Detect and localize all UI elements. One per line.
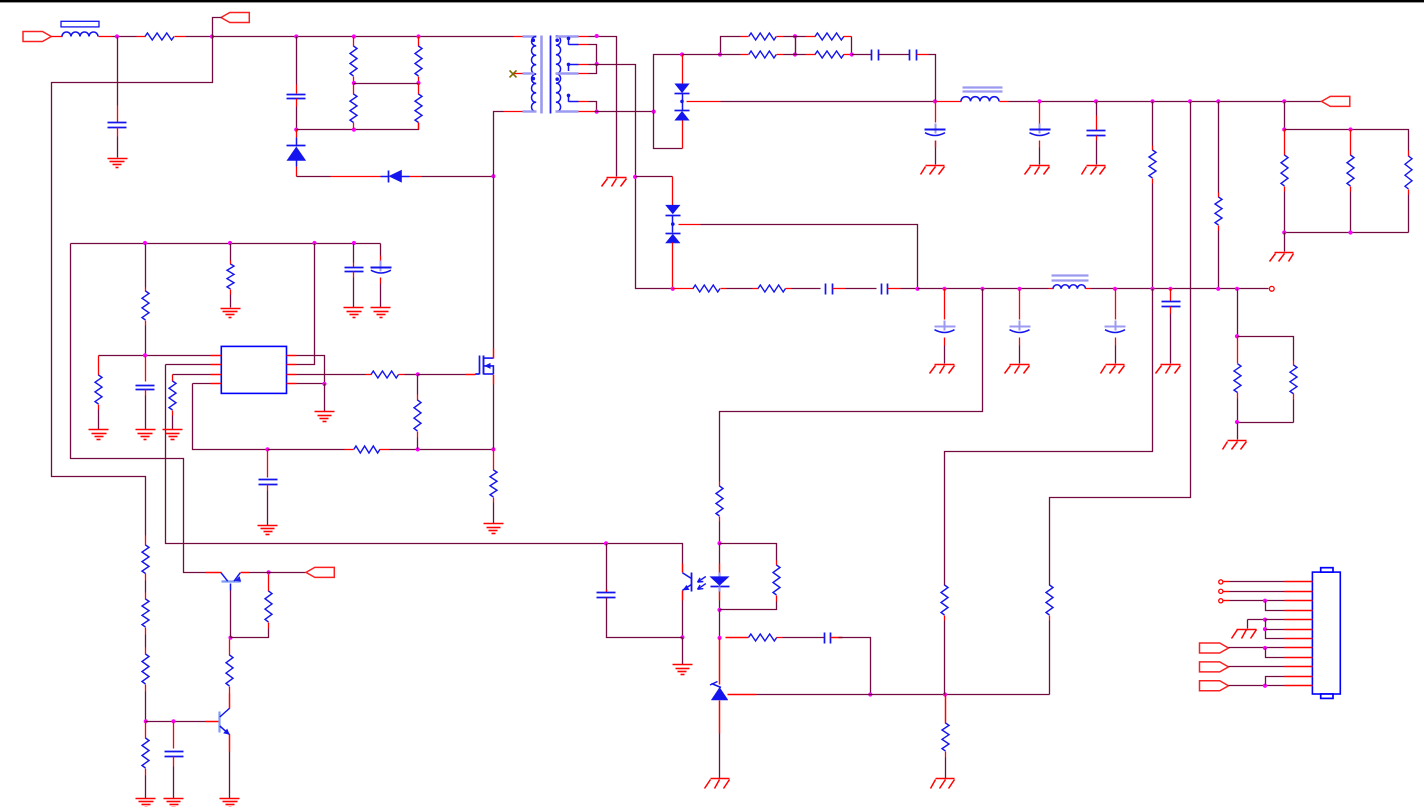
wire bank top bus xyxy=(1285,130,1409,151)
resistor R24 (gate) xyxy=(366,374,372,376)
IC U1 right pin 4 xyxy=(287,383,297,385)
comp R lead red xyxy=(726,637,749,639)
TL431 U3 cathode pin red xyxy=(719,638,721,685)
IC U1 left pin 3 xyxy=(211,374,222,376)
wire hook3 to node n4 xyxy=(589,102,597,112)
T1 sec hook2 lead xyxy=(569,64,579,66)
MOSFET Q3 gate corner xyxy=(475,373,479,375)
wire rail2 b xyxy=(1091,288,1269,290)
ground GND11 xyxy=(1228,440,1247,442)
opto U2 light arrow 2 xyxy=(698,584,706,590)
inductor L3 xyxy=(1053,285,1086,289)
dual diode D6 (rail2 lower) xyxy=(666,234,680,243)
connector K1 pin 10 xyxy=(1285,666,1313,668)
wire row1 mid xyxy=(784,36,806,38)
wire row2 b xyxy=(784,54,806,56)
C20 pin red xyxy=(831,637,843,639)
node rail junction 354 xyxy=(352,34,356,38)
T1 sec hook1 lead xyxy=(569,44,579,46)
wire r5 xyxy=(901,288,918,290)
T1 sec hook1 dot xyxy=(567,37,571,41)
capacitor C18 xyxy=(165,751,184,753)
wire pair gnd xyxy=(1237,423,1239,440)
node bus j1 xyxy=(143,241,147,245)
terminal T2 pin red xyxy=(1224,591,1230,593)
wire K1 pin11 xyxy=(1266,677,1285,686)
diode D1 lower pin red xyxy=(296,167,298,177)
Q2 emitter pin red xyxy=(229,735,231,752)
C5 pin red xyxy=(935,141,937,148)
node source junction xyxy=(491,447,495,451)
node opto emitter junction xyxy=(680,635,684,639)
wire TL431 anode gnd xyxy=(719,734,721,779)
connector flag J5 xyxy=(1200,643,1229,653)
T1 sec hook3 dot xyxy=(567,94,571,98)
node snubber row2 left xyxy=(718,52,722,56)
dual diode D4 pin xyxy=(682,121,684,149)
wire R20 gnd xyxy=(230,295,232,308)
rect2 top anode pin xyxy=(672,177,674,206)
resistor R30 xyxy=(145,722,147,739)
wire n5 down to anode bus 2 xyxy=(654,112,683,149)
wire r4 xyxy=(846,288,877,290)
wire Q2 emitter gnd xyxy=(229,752,231,799)
connector K1 pin 1 xyxy=(1285,581,1313,583)
capacitor C19 xyxy=(597,592,616,594)
C8 pin red xyxy=(833,288,846,290)
node bank top left xyxy=(1282,127,1286,131)
node chain A mid junction xyxy=(352,81,356,85)
node rail1 j1 xyxy=(1037,99,1041,103)
resistor R14 (load) xyxy=(1408,151,1410,157)
node LED anode junction xyxy=(717,541,721,545)
T1 sec lead n1 light xyxy=(556,35,579,37)
wire rail2 feed top xyxy=(701,225,918,289)
transistor Q2 emitter arrow xyxy=(223,729,230,735)
wire chain b xyxy=(145,635,147,648)
transformer T1 primary tap lead xyxy=(523,72,535,74)
wire C14 gnd xyxy=(353,278,355,308)
connector flag J3 (V+ out) xyxy=(1322,96,1350,106)
resistor R4 (clamp chain B top) xyxy=(418,37,420,47)
resistor R12 (load) xyxy=(1284,130,1286,156)
wire pin2 down-right xyxy=(166,365,683,564)
node n5 junction xyxy=(652,110,656,114)
C15 lead red xyxy=(380,256,382,262)
capacitor C9 xyxy=(881,284,883,295)
wire to node AC2 xyxy=(186,36,213,38)
wire bank bottom bus xyxy=(1285,232,1409,234)
resistor R20 xyxy=(230,261,232,265)
C12 pin red xyxy=(1115,338,1117,346)
node pinR4 junction xyxy=(322,382,326,386)
transistor Q1 base bar xyxy=(222,580,241,582)
IC U1 left pin 4 xyxy=(211,383,222,385)
wire primary bottom to drain xyxy=(494,112,504,349)
diode D1 (clamp) xyxy=(287,147,306,161)
connector flag J2 xyxy=(221,13,249,23)
wire sense line b xyxy=(390,449,494,451)
wire n4 to rect1 node xyxy=(595,111,654,113)
node rail1 j5 xyxy=(1216,99,1220,103)
T1 sec lead n4 pin xyxy=(579,111,595,113)
node TL431 cathode junction xyxy=(718,636,722,640)
node rail junction 418 xyxy=(416,34,420,38)
wire parallel R top xyxy=(720,544,777,561)
rail1 center pin red xyxy=(687,101,721,103)
resistor R37 (divider upper) xyxy=(1046,585,1053,615)
wire pin3 xyxy=(173,374,211,376)
T1 sec hook2 dot xyxy=(567,63,571,67)
resistor R27 xyxy=(145,536,147,546)
connector K1 pin 3 xyxy=(1285,600,1313,602)
node rail2 j1 xyxy=(942,287,946,291)
ground GND2 (sec common) xyxy=(607,177,627,179)
no-connect X xyxy=(510,70,517,77)
IC U1 right pin 2 xyxy=(287,364,297,366)
transformer T1 primary phase dot xyxy=(532,38,536,42)
LED D7 lead light xyxy=(718,573,720,578)
inductor L1 shield xyxy=(61,21,99,27)
opto U2 emitter diag xyxy=(682,585,691,591)
wire C17 gnd xyxy=(267,491,269,526)
wire bus left down xyxy=(71,244,206,573)
node chain B mid junction xyxy=(416,81,420,85)
resistor R10 (bleed) xyxy=(1152,146,1154,151)
wire C1 to ground xyxy=(117,137,119,158)
resistor R5 (clamp chain B bottom) xyxy=(418,84,420,95)
Q1 base pin blue xyxy=(230,584,232,591)
node ref junction a xyxy=(868,692,872,696)
clamp cap pin red 2 xyxy=(296,99,298,107)
transformer T1 primary tap pin xyxy=(514,73,523,75)
node K1 pin8 junction xyxy=(1263,646,1267,650)
C10 lead red xyxy=(944,289,946,320)
ground GND6 xyxy=(1275,252,1294,254)
wire D2 to drain node xyxy=(422,176,494,178)
node anode bus junction xyxy=(680,52,684,56)
resistor R34 (LED parallel) xyxy=(776,561,778,566)
wire R13 low xyxy=(1350,192,1352,233)
ground GND3 xyxy=(926,165,945,167)
wire r2 xyxy=(727,288,753,290)
T1 sec lead n4 light xyxy=(556,110,579,112)
IC U1 right pin 3 xyxy=(287,374,297,376)
node snubber row1 mid xyxy=(793,34,797,38)
wire r3 xyxy=(792,288,821,290)
wire K1 pin3 xyxy=(1230,600,1285,602)
node bank bottom mid xyxy=(1348,230,1352,234)
wire rail1 feed xyxy=(721,101,936,103)
wire gate c xyxy=(418,374,466,376)
ground GND20 xyxy=(484,523,504,525)
wire sense line xyxy=(268,449,345,451)
capacitor C16 xyxy=(136,385,155,387)
Q2 collector pin red xyxy=(229,694,231,709)
wire hook1 to node n2 xyxy=(589,45,597,65)
C6 lead red xyxy=(1039,102,1041,124)
wire K1 pin5-7 link xyxy=(1266,620,1285,639)
T1 sec lead n1 pin xyxy=(579,36,589,38)
resistor R36 (divider upper) xyxy=(941,585,948,615)
capacitor C10 (rail2 filter) xyxy=(944,321,946,331)
C18 pin red 2 xyxy=(173,757,175,767)
inductor L3 pin red right xyxy=(1086,288,1091,290)
connector K1 pin 11 xyxy=(1285,676,1313,678)
node n4 junction xyxy=(595,110,599,114)
T1 sec lead n3 pin xyxy=(579,73,589,75)
node K1 pin12 junction xyxy=(1263,684,1267,688)
C11 pin red xyxy=(1019,338,1021,346)
wire to Q1 base xyxy=(230,591,232,638)
TL431 ref pin red xyxy=(728,694,757,696)
connector K1 bottom tab xyxy=(1321,694,1333,698)
terminal circle T3 xyxy=(1219,599,1223,603)
node AC2 junction xyxy=(210,34,214,38)
terminal T1 pin red xyxy=(1224,581,1230,583)
wire comp cap down xyxy=(606,544,608,590)
wire R20 up xyxy=(230,244,232,261)
resistor R6 (snubber) xyxy=(741,36,749,38)
inductor L3 shield 2 xyxy=(1052,279,1089,281)
wire R32 link xyxy=(231,629,269,638)
wire D1 to D2 xyxy=(297,176,331,178)
node pair top xyxy=(1235,334,1239,338)
capacitor C5 lead red xyxy=(935,102,937,123)
T1 sec hook3 lead xyxy=(569,101,579,103)
inductor L1 lead right xyxy=(99,36,113,38)
resistor R19 xyxy=(145,288,147,292)
node snubber row2 right xyxy=(850,52,854,56)
resistor R28 xyxy=(145,593,147,600)
wire K1 pin12 xyxy=(1229,685,1285,687)
resistor R21 xyxy=(95,375,102,404)
resistor R3 (clamp chain A bottom) xyxy=(353,84,355,95)
inductor L2 shield xyxy=(963,86,1003,88)
wire pinR1 xyxy=(297,356,325,384)
wire LED cathode down xyxy=(719,610,721,638)
resistor R13 (load) xyxy=(1350,130,1352,156)
C13 pin red xyxy=(1170,307,1172,314)
opto U2 light arrow 1 xyxy=(698,577,706,583)
ground GND14 xyxy=(371,307,391,309)
wire R30 gnd xyxy=(145,776,147,799)
capacitor C1 (X cap) xyxy=(117,106,119,123)
MOSFET Q3 gate bar xyxy=(479,356,481,375)
wire gate pulldown xyxy=(417,375,419,395)
wire n3 up to node n2 xyxy=(589,65,597,74)
ground GND27 xyxy=(1237,629,1257,631)
opto U2 emitter pin red xyxy=(682,591,684,601)
diode D2 bar xyxy=(388,171,390,183)
transformer T1 secondary phase dot 2 xyxy=(555,77,559,81)
IC U1 left pin 1 xyxy=(211,355,222,357)
diode D1 pin blue xyxy=(296,138,298,147)
inductor L3 shield xyxy=(1052,274,1089,276)
TL431 U3 anode pin red xyxy=(719,701,721,734)
node gate junction xyxy=(416,372,420,376)
resistor R2 (clamp chain A top) xyxy=(353,37,355,47)
inductor L1 lead xyxy=(52,36,63,38)
node ref junction b xyxy=(943,692,947,696)
opto U2 bar xyxy=(691,573,693,592)
transformer T1 primary phase dot 2 xyxy=(532,77,536,81)
wire C11 gnd xyxy=(1019,346,1021,364)
wire LED feed R xyxy=(719,479,721,482)
wire R17 low xyxy=(1237,399,1239,423)
capacitor C5 (rail1 filter) xyxy=(935,124,937,134)
resistor R9 (snubber) xyxy=(806,54,816,56)
capacitor C20 (comp) xyxy=(824,633,826,644)
transformer T1 primary top pin xyxy=(514,36,523,38)
wire pin4 xyxy=(193,383,211,385)
connector K1 pin 4 xyxy=(1285,610,1313,612)
transistor Q2 base bar xyxy=(218,712,220,733)
diode D1 pin red xyxy=(296,130,298,138)
wire C16 gnd xyxy=(145,396,147,430)
LED D7 pin red 2 xyxy=(719,592,721,601)
MOSFET Q3 drain branch xyxy=(483,357,493,359)
diode D2 pin blue xyxy=(381,176,389,178)
wire chain a xyxy=(145,581,147,593)
R26 lead red xyxy=(493,450,495,471)
resistor R1 (line) xyxy=(137,36,146,38)
capacitor C7 xyxy=(1096,116,1098,131)
node SN2 junction xyxy=(294,128,298,132)
transformer T1 core bar dark xyxy=(550,36,552,114)
wire K1 pin8 xyxy=(1229,647,1285,649)
node bank top mid xyxy=(1348,127,1352,131)
resistor R18 xyxy=(1293,361,1295,366)
ground GND25 xyxy=(711,778,730,780)
LED D7 pin red xyxy=(719,564,721,573)
capacitor C6 xyxy=(1039,124,1041,134)
inductor L2 xyxy=(961,97,999,102)
wire parallel R bottom xyxy=(720,602,777,610)
wire node SN2 to chains xyxy=(297,123,419,130)
capacitor C15 xyxy=(380,261,382,272)
wire K1 pin2 xyxy=(1230,591,1285,593)
C17 lead red xyxy=(267,450,269,478)
wire K1 pin9 xyxy=(1266,648,1285,658)
capacitor C13 xyxy=(1162,301,1181,303)
wire C6 to ground xyxy=(1039,148,1041,165)
transformer T1 secondary phase dot xyxy=(555,38,559,42)
dual diode D3 top pin xyxy=(682,55,684,85)
wire R19 up xyxy=(145,244,147,288)
wire C12 gnd xyxy=(1115,346,1117,364)
C18 lead red xyxy=(173,722,175,749)
transistor Q1 collector diag xyxy=(221,573,228,582)
node Q1 base junction xyxy=(228,636,232,640)
wire pin1 bus xyxy=(99,355,211,357)
node SN1 junction xyxy=(294,34,298,38)
diode D1 lower pin xyxy=(296,161,298,167)
wire K1 gnd drop xyxy=(1247,620,1249,629)
wire gate b xyxy=(405,374,418,376)
inductor L2 pin red right xyxy=(1000,101,1009,103)
transistor Q2 collector xyxy=(220,708,230,717)
node sense cap junction xyxy=(265,447,269,451)
wire pin2 long xyxy=(166,364,211,366)
dual diode D3 link xyxy=(682,94,684,111)
wire pair top link xyxy=(1238,337,1294,361)
border bar xyxy=(0,0,1424,2)
T1 sec lead n3 light xyxy=(556,72,579,74)
C14 pin red xyxy=(353,263,355,268)
node bus j2 xyxy=(228,241,232,245)
wire C19 to gnd node xyxy=(607,598,683,638)
IC U1 right pin 1 xyxy=(287,355,297,357)
capacitor C11 xyxy=(1019,321,1021,331)
resistor R8 (snubber) xyxy=(741,54,749,56)
wire divider upper 1 xyxy=(944,581,946,586)
wire rect2 top anode xyxy=(636,176,673,178)
connector flag J7 xyxy=(1200,681,1229,691)
ground GND7 xyxy=(935,364,955,366)
node rail1 j2 xyxy=(1094,99,1098,103)
IC U1 body xyxy=(221,346,286,393)
wire R10 down to rail2 xyxy=(1152,184,1154,289)
wire C15 gnd xyxy=(380,284,382,308)
clamp cap pin red xyxy=(296,85,298,94)
wire to C7 xyxy=(1096,102,1098,116)
node K1 pin5 junction xyxy=(1263,618,1267,622)
wire R14 low xyxy=(1408,195,1410,233)
wire snubber to rail1 node xyxy=(929,55,936,102)
connector K1 pin 8 xyxy=(1285,647,1313,649)
R22 lead red xyxy=(172,375,174,382)
wire n2 to rect2 anode leg xyxy=(597,65,673,289)
C13 lead red xyxy=(1170,289,1172,302)
wire R19 down xyxy=(145,326,147,356)
wire to R11 xyxy=(1218,102,1220,193)
wire to R10 xyxy=(1152,102,1154,146)
resistor R35 (comp) xyxy=(749,634,777,641)
connector flag J4 xyxy=(306,567,334,577)
wire chain mid link xyxy=(354,83,419,85)
wire R33 low xyxy=(719,522,721,544)
C15 pin red xyxy=(380,278,382,284)
inductor L2 shield 2 xyxy=(963,90,1003,92)
ground GND10 xyxy=(1161,364,1181,366)
R15 lead xyxy=(673,288,694,290)
transformer T1 primary bottom pin xyxy=(504,111,523,113)
node LED cathode junction xyxy=(717,608,721,612)
terminal circle T2 xyxy=(1219,589,1223,593)
resistor R15 (rail2 snubber) xyxy=(693,285,720,292)
wire comp mid xyxy=(783,637,825,639)
node rail1 j3 xyxy=(1150,99,1154,103)
node rail2 j2 (feedback tap) xyxy=(980,287,984,291)
wire opto emitter down xyxy=(682,601,684,638)
T1 sec hook1 xyxy=(568,38,570,45)
diode D2 pin red xyxy=(331,176,381,178)
node rail2 j5 xyxy=(1150,287,1154,291)
resistor R22 xyxy=(169,381,176,410)
node n1 junction xyxy=(595,34,599,38)
rail2 open terminal xyxy=(1269,286,1274,291)
R21 lead red xyxy=(98,356,100,376)
wire sense2 down xyxy=(945,289,1153,581)
gate pin red xyxy=(466,374,476,376)
wire C5 to ground xyxy=(935,141,937,165)
ground GND23 xyxy=(220,798,240,800)
opto U2 collector diag xyxy=(682,573,691,579)
resistor R25 xyxy=(417,395,419,401)
dual diode D5 (rail2 upper) xyxy=(666,205,680,214)
wire sense1 down xyxy=(1050,102,1191,581)
